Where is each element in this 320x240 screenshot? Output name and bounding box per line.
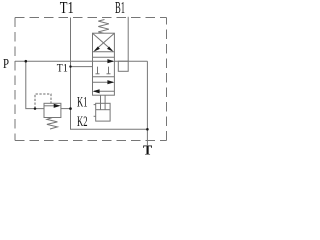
wire T1 branch to valve: [71, 66, 93, 68]
junction dot pilot takeoff: [34, 107, 37, 110]
relief valve box: [44, 103, 61, 117]
pilot piston box: [96, 103, 110, 121]
junction dot tank line: [146, 128, 149, 131]
wire tank drop vertical: [146, 61, 148, 145]
svg-text:K2: K2: [77, 114, 88, 130]
arrow X bottom-right: [107, 47, 113, 52]
valve X crossed paths: [93, 33, 113, 50]
spring main valve: [98, 20, 109, 34]
arrow flow P-B1: [107, 59, 114, 63]
arrow flow mid: [107, 80, 114, 84]
svg-text:T1: T1: [60, 0, 74, 17]
relief pilot dashed line: [35, 94, 51, 109]
port K1 stub: [94, 104, 96, 106]
svg-text:T1: T1: [57, 63, 68, 75]
junction dot T1 branch: [69, 65, 71, 67]
valve flow line right arrow: [93, 81, 114, 83]
wire B1 vertical: [127, 17, 129, 61]
arrowheads: [25, 47, 149, 131]
svg-text:T: T: [143, 142, 152, 157]
valve flow line left arrow: [94, 90, 114, 92]
enclosure dashed border: [15, 18, 167, 141]
valve flow line P-B1: [93, 60, 114, 62]
valve main body box: [93, 33, 115, 95]
wire T1 top vertical: [71, 18, 148, 130]
wire valve to B1/tank horizontal: [114, 60, 147, 62]
wire P horizontal: [15, 60, 93, 62]
relief valve flow line: [44, 105, 59, 107]
wire P drop to relief: [26, 61, 44, 108]
svg-text:P: P: [3, 56, 9, 71]
arrow X bottom-left: [94, 47, 100, 52]
valve blocked port ticks: [97, 67, 99, 74]
relief valve spring: [47, 118, 58, 130]
damper square: [118, 61, 128, 71]
junction dot relief outlet: [69, 107, 72, 110]
wire relief outlet: [61, 108, 71, 110]
valve divider lines: [93, 51, 115, 53]
svg-text:B1: B1: [115, 0, 125, 17]
junction dot P-relief: [25, 60, 28, 63]
piston rods: [100, 95, 102, 110]
port K2 stub: [94, 115, 96, 117]
arrow relief flow: [54, 104, 61, 108]
svg-text:K1: K1: [77, 95, 88, 111]
arrow flow left: [93, 89, 100, 93]
